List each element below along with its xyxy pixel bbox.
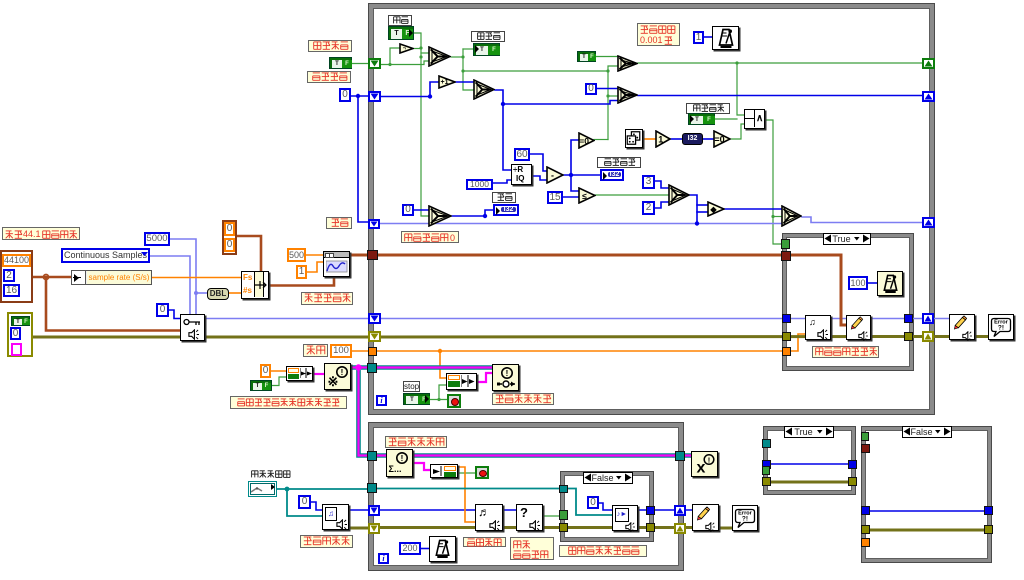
svg-text:Σ...: Σ... [389,464,402,474]
svg-text:≤: ≤ [582,191,587,201]
svg-text:=0: =0 [714,134,724,144]
svg-text:!: ! [401,454,404,463]
svg-text:!: ! [341,368,344,377]
svg-text:1: 1 [658,134,663,144]
svg-text:!: ! [506,369,509,378]
svg-text:¬: ¬ [403,46,406,52]
svg-text:+1: +1 [440,79,448,86]
svg-text:※: ※ [328,374,339,389]
svg-text:◆: ◆ [709,205,717,214]
svg-text:?!: ?! [998,325,1004,332]
svg-text:!: ! [708,456,711,465]
svg-text:=0: =0 [579,136,589,146]
svg-text:-: - [551,170,554,180]
svg-text:x: x [697,460,706,477]
svg-text:?!: ?! [742,516,748,523]
